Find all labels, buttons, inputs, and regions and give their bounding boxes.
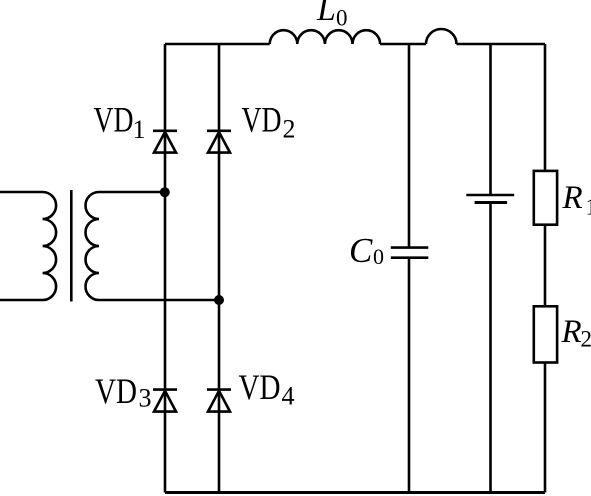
diode VD3 xyxy=(153,390,177,412)
svg-text:VD: VD xyxy=(242,100,282,140)
wire top horizontal right of hop xyxy=(457,43,546,46)
diode VD1 xyxy=(153,131,177,153)
wire hop (crossover bump) xyxy=(426,29,457,44)
capacitor C0 xyxy=(391,248,429,258)
wire top horizontal between L0 and hop xyxy=(380,43,426,46)
svg-text:0: 0 xyxy=(336,6,348,31)
resistor R2 xyxy=(534,306,557,362)
svg-text:4: 4 xyxy=(282,382,295,411)
svg-text:0: 0 xyxy=(373,244,384,269)
wire bottom horizontal xyxy=(165,491,545,494)
wire battery branch upper xyxy=(489,44,492,195)
wire C0 branch lower xyxy=(408,258,411,493)
transformer core xyxy=(70,190,73,302)
svg-text:VD: VD xyxy=(95,371,137,411)
wire right edge between R1 and R2 xyxy=(544,225,547,307)
svg-text:L: L xyxy=(316,0,336,28)
label C0 xyxy=(349,231,384,270)
svg-text:3: 3 xyxy=(139,384,152,413)
label VD2 xyxy=(242,100,296,144)
svg-text:1: 1 xyxy=(586,195,591,220)
wire right edge below R2 xyxy=(544,363,547,493)
svg-text:C: C xyxy=(349,231,373,270)
wire left bridge leg (VD1/VD3 branch) xyxy=(164,44,167,493)
wire top horizontal left of L0 xyxy=(165,43,270,46)
label R1 xyxy=(562,180,591,220)
wire battery branch lower xyxy=(489,203,492,493)
svg-text:R: R xyxy=(562,180,583,216)
battery GB (long and short plates) xyxy=(466,195,514,203)
svg-text:VD: VD xyxy=(94,100,134,140)
label VD1 xyxy=(94,100,146,145)
label VD4 xyxy=(239,367,295,411)
diode VD2 xyxy=(207,131,231,153)
transformer T secondary winding xyxy=(86,192,220,300)
label L0 xyxy=(316,0,348,31)
wire right edge above R1 xyxy=(544,44,547,171)
wire C0 branch upper xyxy=(408,44,411,248)
svg-text:2: 2 xyxy=(283,115,296,144)
node junction dot (secondary top to VD1/VD3 leg) xyxy=(160,187,170,197)
node junction dot (secondary bottom to VD2/VD4 leg) xyxy=(214,295,224,305)
resistor R1 xyxy=(534,171,557,225)
svg-text:1: 1 xyxy=(133,115,146,144)
label VD3 xyxy=(95,371,152,413)
transformer T primary winding xyxy=(0,192,56,300)
wire right bridge leg (VD2/VD4 branch) xyxy=(218,44,221,493)
svg-text:R: R xyxy=(561,314,582,350)
svg-text:VD: VD xyxy=(239,367,281,407)
label R2 xyxy=(561,314,591,352)
diode VD4 xyxy=(207,390,231,412)
inductor L0 xyxy=(270,30,380,44)
svg-text:2: 2 xyxy=(581,327,591,352)
